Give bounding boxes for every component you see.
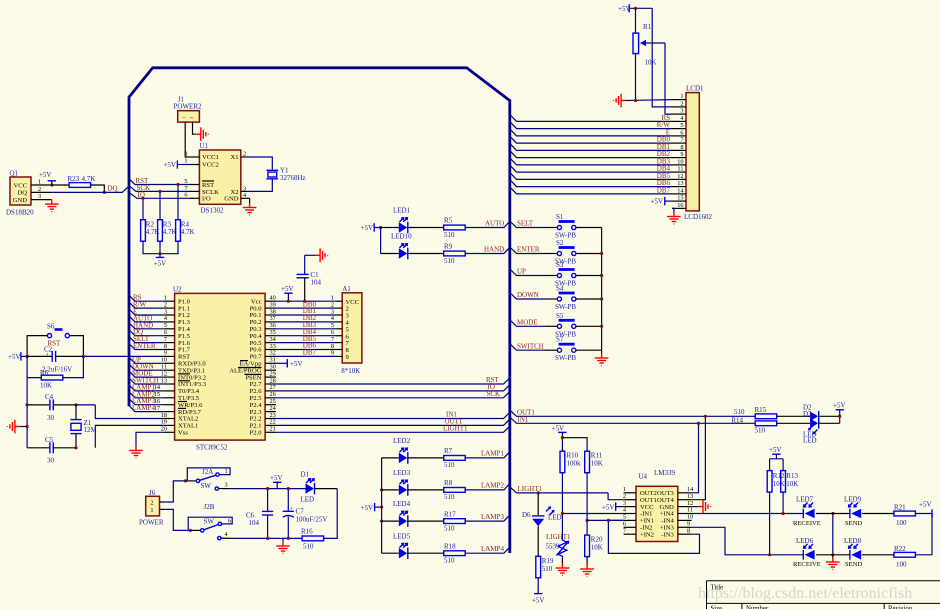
comparator U4 LM339 [636,469,678,542]
+5V at U4 VCC [602,502,624,511]
svg-text:J2B: J2B [204,503,215,511]
svg-text:8: 8 [184,150,187,157]
ground at U1 GND [249,198,251,203]
mid vertical between LED pairs [832,514,834,555]
wire R21 to +5V [915,513,932,515]
wire R23 to DQ node [91,185,105,192]
svg-text:7: 7 [623,527,626,534]
button S4 DOWN [510,285,602,312]
svg-text:+5V: +5V [552,424,565,432]
svg-text:+5V: +5V [361,224,374,232]
LED10 [381,233,444,260]
ground top right [614,94,626,108]
svg-text:510: 510 [303,542,314,550]
svg-text:100: 100 [896,560,907,568]
svg-text:30: 30 [47,457,55,465]
ground wire to LCD pin1 [626,99,672,102]
resistor network A1 8*10K [341,285,362,375]
wires D2/D3 to +5V [820,416,840,423]
svg-text:2: 2 [38,186,41,193]
resistor R19 510 [536,556,554,578]
svg-text:DQ: DQ [17,190,27,197]
svg-text:MODE: MODE [517,319,538,327]
capacitor C2 2.2uF/16V [27,346,83,374]
+5V power [270,474,283,489]
svg-text:R12: R12 [773,472,785,480]
svg-text:I/O: I/O [202,196,211,203]
switch J2B [188,503,232,540]
svg-text:+5V: +5V [39,171,52,179]
svg-text:5: 5 [680,122,683,129]
svg-text:R1: R1 [643,23,652,31]
svg-text:−: − [182,114,186,122]
svg-text:10K: 10K [786,480,798,488]
resistor R22 100 [894,545,916,568]
LED1 [381,207,444,234]
resistor R10 100k [560,451,581,473]
U4 pin stubs right [678,493,692,534]
svg-text:+5V: +5V [361,504,374,512]
wire R17 to edge, net LAMP3 [465,515,510,521]
svg-text:+5V: +5V [290,360,303,368]
svg-text:R15: R15 [755,406,767,414]
LED D3 [803,410,819,444]
button S1 SELT [510,213,602,240]
svg-text:10K: 10K [591,544,603,552]
svg-text:U4: U4 [639,473,648,481]
MCU U2 STC89C52 [173,285,265,451]
wire pin11 row to LED7 [692,513,804,515]
wire +5V to LCD pin2 [652,8,672,107]
net labels RST IO SCK [486,376,500,398]
svg-text:R16: R16 [301,527,313,535]
P2 rows to right edge: RST IO SCK [276,378,510,398]
svg-text:7: 7 [680,137,683,144]
svg-text:510: 510 [755,427,766,435]
ground (sideways) at J1 [196,127,208,141]
LCD pin stubs and numbers [672,100,686,209]
svg-text:SCK: SCK [487,390,501,398]
LCD data bus fan wires [510,114,672,193]
LED7 RECEIVE [793,496,821,527]
svg-text:RECEIVE: RECEIVE [793,520,821,527]
svg-text:13: 13 [161,377,167,384]
U2 left pin names [178,298,207,436]
ground at U4 GND (sideways) [692,506,699,508]
module boundary outline [129,68,510,553]
svg-text:~: ~ [190,115,194,123]
svg-text:3: 3 [680,108,683,115]
svg-text:8: 8 [687,527,690,534]
svg-text:30: 30 [47,414,55,422]
svg-text:32768Hz: 32768Hz [280,174,306,182]
svg-text:R11: R11 [591,452,603,460]
button S5 MODE [510,312,602,339]
resistor R23 4.7K [68,175,96,187]
svg-text:11: 11 [677,166,683,173]
svg-text:6: 6 [184,192,187,199]
svg-text:DB7: DB7 [303,349,317,357]
svg-text:DS18B20: DS18B20 [6,209,34,217]
resistor R16 510 [301,527,324,550]
svg-text:LED: LED [548,514,562,522]
DB rows U2 to A1 [276,308,336,356]
+5V at Vcc row [281,285,294,301]
reset button S6 [47,323,69,348]
buttons common bus [601,228,603,351]
svg-text:Size: Size [711,606,723,609]
wire pin5 row [587,519,624,521]
R12 vertical to LED6 row [769,492,771,555]
svg-text:16: 16 [677,202,683,209]
+5V reset [8,352,27,361]
potentiometer R1 10K [633,8,665,100]
svg-text:DS1302: DS1302 [201,207,224,215]
button S3 UP [510,261,602,288]
LED D1 [301,471,338,504]
junction [50,183,53,186]
svg-text:Number: Number [746,606,769,609]
title block [707,581,940,609]
capacitor C1 104 [297,255,322,301]
svg-text:AUTO: AUTO [485,219,504,227]
svg-text:R9: R9 [444,243,453,251]
IN1 row crossing edge [276,412,510,418]
svg-text:4: 4 [225,531,229,538]
svg-text:S4: S4 [556,285,564,293]
wire J1 pin to ground [193,122,197,134]
svg-text:DQ: DQ [108,184,118,192]
svg-text:510: 510 [444,493,455,501]
pin wires Q1 [31,184,52,186]
+5V above R10/R11 [552,424,567,451]
svg-text:+5V: +5V [8,353,21,361]
svg-text:SW: SW [204,517,215,525]
U2 right pin stubs [265,301,276,432]
junction [103,191,106,194]
U2 right pin names [229,298,262,436]
svg-text:LAMP4: LAMP4 [132,404,155,412]
svg-text:https://blog.csdn.net/eletroni: https://blog.csdn.net/eletronicfish [698,585,912,602]
svg-text:510: 510 [734,408,745,416]
svg-text:S1: S1 [556,213,564,221]
svg-text:LAMP1: LAMP1 [481,450,504,458]
svg-text:LCD1: LCD1 [686,85,704,93]
wire pin4 row [562,513,623,515]
LED8 SEND [844,537,862,568]
wiper wire to LCD pin3 [665,43,672,114]
svg-text:DB7: DB7 [657,186,671,194]
svg-text:1: 1 [150,507,153,514]
wire R18 to edge, net LAMP4 [465,547,510,553]
+5V at LCD pin15 [650,197,672,206]
OUT1 row crossing edge [276,419,510,425]
resistor R13 10K [781,471,799,493]
svg-text:SWITCH: SWITCH [517,342,544,350]
resistor R20 10K [585,520,603,556]
svg-text:10: 10 [677,159,683,166]
LIGHT1 row outside [510,487,608,493]
wire XTAL1 net [95,425,163,447]
capacitor C6 104 [246,489,273,539]
svg-text:VCC: VCC [13,182,27,189]
svg-text:SW-PB: SW-PB [555,354,576,362]
svg-text:104: 104 [249,519,260,527]
+5V at LED1/LED10 [361,223,381,232]
LED9 SEND [844,496,862,527]
svg-text:D3: D3 [803,410,812,418]
svg-text:D1: D1 [301,471,310,479]
svg-text:LED9: LED9 [844,496,862,504]
wire J1 pin to VCC1 [185,122,189,157]
resistor R8 510 [444,479,466,501]
+5V at Q1 VCC [39,171,56,185]
svg-text:8*10K: 8*10K [341,367,360,375]
svg-text:12: 12 [677,173,683,180]
svg-text:4.7K: 4.7K [82,175,96,183]
wire C4 row to XTAL2 corner [76,404,95,406]
svg-text:10K: 10K [591,460,603,468]
svg-text:R19: R19 [542,557,554,565]
svg-text:POWER2: POWER2 [174,102,203,110]
+5V above R12/R13 [769,446,782,459]
ground below LDR [556,564,570,576]
ground at U2 Vss [129,446,143,458]
svg-text:10K: 10K [645,59,657,67]
svg-text:-IN3: -IN3 [661,531,674,538]
+5V row from J2A [231,488,306,490]
left edge fan wires pins10-17 [129,357,164,411]
Vcc row wire to A1 [276,300,336,302]
+5V at U1 VCC2 [163,160,189,169]
svg-text:LED: LED [803,437,817,445]
ground (sideways) crystal [19,426,27,428]
resistor R15 510 [734,406,777,419]
wire Vss to ground [136,432,164,446]
+5V right [919,501,932,518]
+5V at D2 [833,401,846,416]
resistor R17 510 [444,510,466,532]
svg-text:510: 510 [444,524,455,532]
ground row from J2B [231,537,302,539]
resistor R12 10K [767,471,785,493]
svg-text:+5V: +5V [281,285,294,293]
svg-text:Revision: Revision [888,606,913,609]
ground above C1 (sideways) [305,254,316,256]
pullup vertical wires [142,198,144,219]
connector J1 POWER2 [174,96,203,123]
svg-text:3: 3 [225,482,228,489]
svg-text:LM339: LM339 [654,469,676,477]
svg-text:P2.0: P2.0 [250,430,263,437]
svg-text:510: 510 [444,231,455,239]
svg-text:1: 1 [184,158,187,165]
wire IO row to U1 [129,192,190,198]
svg-text:SW: SW [201,482,212,490]
ground at Q1 GND [45,200,59,212]
svg-text:R8: R8 [444,479,453,487]
ground below R20 [586,557,588,565]
wire SCK row to U1 [129,185,190,191]
svg-text:A1: A1 [342,285,351,293]
resistor R6 10K [40,369,63,390]
svg-text:R20: R20 [591,536,603,544]
svg-text:8: 8 [680,144,683,151]
A1 pin numbers [331,295,335,357]
LED6 RECEIVE [793,537,821,568]
svg-text:10K: 10K [773,480,785,488]
photoresistor LIGHT1 5539 [546,533,571,564]
svg-text:14: 14 [677,188,684,195]
U4 pin numbers [623,486,694,534]
svg-text:LED5: LED5 [393,532,411,540]
pin stubs U1 right [241,156,250,158]
svg-text:VCC1: VCC1 [202,154,219,161]
IN1 row outside [510,417,755,423]
svg-text:2: 2 [243,150,246,157]
wire VCC to R23 [52,184,69,186]
resistor R9 510 [444,243,466,265]
S6 wires [27,336,83,357]
connector LCD1 LCD1602 [684,85,713,222]
svg-text:S6: S6 [47,323,55,331]
vertical to crystal caps [26,378,28,405]
resistor R11 10K [585,451,603,473]
svg-text:DOWN: DOWN [517,291,539,299]
net labels pins1-8 [133,294,156,350]
svg-text:UP: UP [517,268,526,276]
crystal Z1 12M [70,405,97,448]
wire R9 to edge, net HAND [465,247,510,253]
crystal Y1 32768Hz [250,157,306,191]
svg-text:2: 2 [150,500,153,507]
button S7 SWITCH [510,336,602,363]
ground at LCD pin16 [672,208,674,212]
svg-text:J2A: J2A [202,468,213,476]
svg-text:21: 21 [270,426,276,433]
capacitor C5 30 [27,436,76,465]
svg-text:LED1: LED1 [393,207,411,215]
wire R7 to edge, net LAMP1 [465,452,510,458]
left vertical C4-C5 [26,405,28,448]
svg-text:12M: 12M [84,426,98,434]
svg-text:C7: C7 [296,508,305,516]
svg-text:100k: 100k [567,460,582,468]
svg-text:VCC2: VCC2 [202,162,219,169]
net labels pins10-17 [132,356,159,412]
svg-text:4.7K: 4.7K [163,228,177,236]
svg-text:510: 510 [542,565,553,573]
svg-text:+5V: +5V [532,597,545,605]
svg-text:R17: R17 [444,510,456,518]
svg-text:GND: GND [13,197,28,204]
svg-text:R5: R5 [444,217,453,225]
U2 left pin stubs [164,301,175,432]
svg-text:10K: 10K [40,382,52,390]
LED2 [382,437,444,464]
svg-text:+5V: +5V [154,260,167,268]
pullup bottom join to +5V [143,241,178,254]
ground between LED8/LED6 [832,555,834,558]
svg-text:13: 13 [677,180,683,187]
svg-text:RECEIVE: RECEIVE [793,561,821,568]
svg-text:X1: X1 [230,154,238,161]
+5V below R19 [537,578,539,594]
R6 wires [27,356,83,377]
svg-text:+5V: +5V [163,161,176,169]
svg-text:+5V: +5V [602,504,615,512]
svg-text:LCD1602: LCD1602 [684,213,713,221]
+5V at LED2-LED5 bus [361,503,382,512]
svg-text:R7: R7 [444,447,453,455]
svg-text:4.7K: 4.7K [181,228,195,236]
resistor R5 510 [444,217,466,239]
wire LED7-LED9 row [816,513,850,515]
wire pin14 to IN1 row [692,423,699,493]
svg-text:SEND: SEND [845,520,862,527]
svg-text:LAMP3: LAMP3 [481,513,504,521]
svg-text:J6: J6 [149,489,156,497]
svg-text:LED10: LED10 [391,233,412,241]
vertical +5V to R22 [931,514,933,555]
wire XTAL2 net [95,405,163,419]
svg-text:SW-PB: SW-PB [555,303,576,311]
svg-text:+5V: +5V [919,501,932,509]
svg-text:U1: U1 [199,142,208,150]
wire R8 to edge, net LAMP2 [465,484,510,490]
svg-text:R18: R18 [444,542,456,550]
svg-text:100: 100 [896,519,907,527]
U4 pin stubs left [624,493,636,534]
+5V top right [618,4,652,13]
svg-text:LED6: LED6 [796,537,814,545]
U2 left pin numbers [154,295,168,433]
net labels DB0-DB7 [303,300,317,356]
svg-text:+5V: +5V [769,446,782,454]
photodiode D6 [522,493,562,556]
svg-text:104: 104 [311,279,322,287]
svg-text:R23: R23 [68,175,80,183]
OUT1 row outside [510,410,755,416]
wire LED6-LED8 row [816,554,850,556]
svg-text:R10: R10 [567,452,579,460]
svg-text:510: 510 [444,257,455,265]
svg-text:R13: R13 [786,472,798,480]
svg-text:S5: S5 [556,312,564,320]
svg-text:LAMP4: LAMP4 [481,545,504,553]
pin stubs U1 left [189,156,199,158]
LED4 [382,500,444,527]
J6 wires to switches [160,501,166,503]
svg-text:R14: R14 [731,416,743,424]
svg-text:SELT: SELT [517,220,534,228]
svg-text:9: 9 [680,151,683,158]
svg-text:LAMP2: LAMP2 [481,482,504,490]
svg-text:+5V: +5V [650,198,663,206]
A1 pin stubs [336,301,342,356]
resistor R7 510 [444,447,466,469]
svg-text:LIGHT1: LIGHT1 [443,425,468,433]
capacitor C7 100uF/25V [283,489,328,539]
svg-text:2: 2 [680,101,683,108]
IC U1 DS1302 [184,142,247,215]
svg-text:S2: S2 [556,239,564,247]
resistor R14 510 [731,416,776,434]
svg-text:6: 6 [680,130,683,137]
svg-text:LED8: LED8 [844,537,862,545]
wire DQ net [52,187,129,193]
svg-text:STC89C52: STC89C52 [196,444,228,452]
